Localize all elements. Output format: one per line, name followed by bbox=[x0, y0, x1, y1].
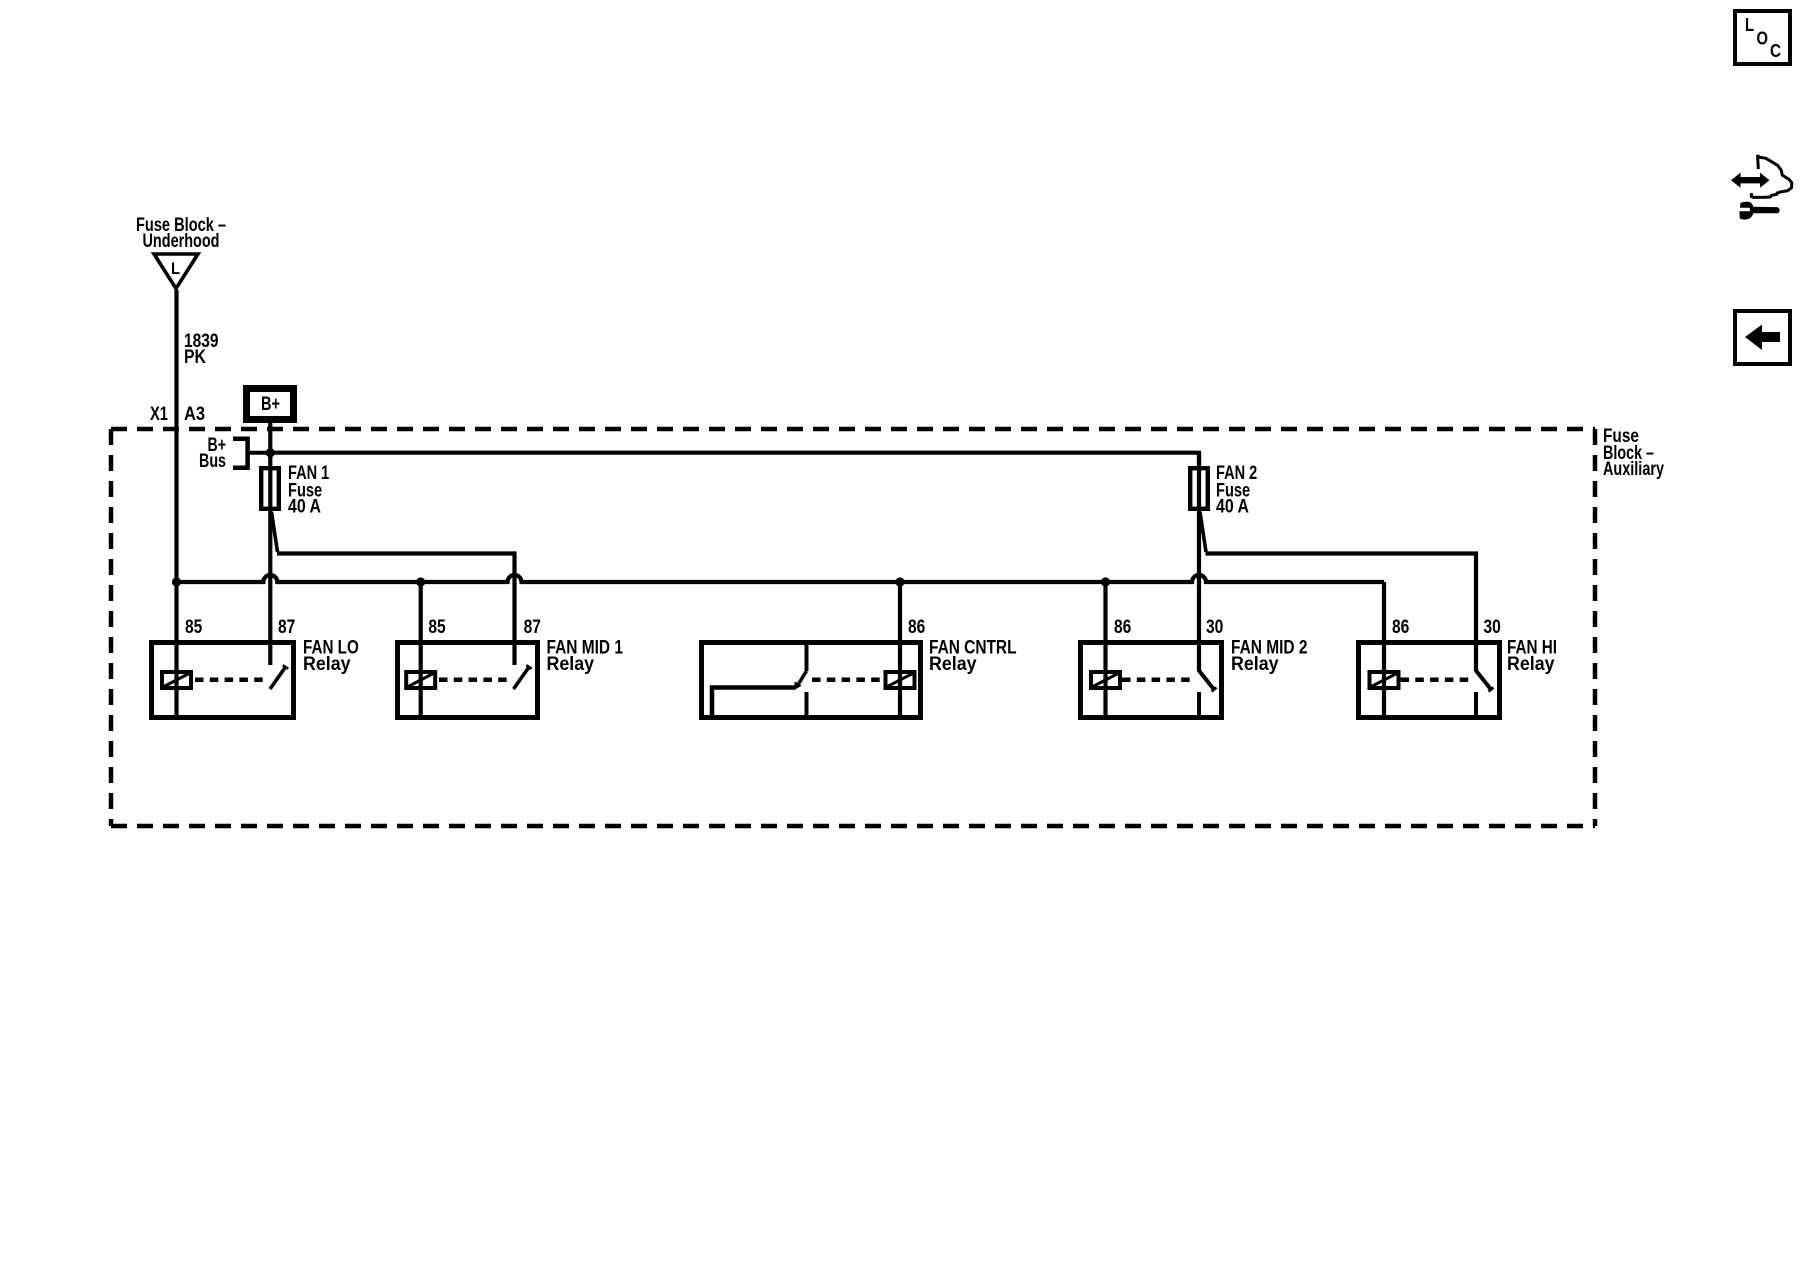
svg-text:L: L bbox=[171, 259, 180, 278]
junction coil bus at FAN CNTRL pin 86 bbox=[895, 577, 904, 586]
fuse FAN 1 40 A bbox=[261, 468, 279, 509]
wire FAN MID 2 pin 86 coil bbox=[1103, 582, 1107, 717]
relay FAN MID 1 box bbox=[398, 643, 538, 718]
wire FAN 1 fuse output diagonal branch bbox=[272, 512, 278, 552]
relay FAN CNTRL coil-switch dashed link bbox=[812, 678, 883, 683]
wire FAN HI pin 86 coil bbox=[1382, 582, 1386, 717]
relay FAN MID 2 coil bbox=[1091, 672, 1120, 688]
relay FAN LO switch blade bbox=[270, 665, 288, 689]
svg-text:PK: PK bbox=[184, 347, 206, 368]
label wire 1839 PK bbox=[184, 331, 219, 368]
fuse FAN 2 40 A bbox=[1190, 468, 1208, 509]
relay FAN LO coil bbox=[162, 672, 191, 688]
relay FAN LO coil-switch dashed link bbox=[195, 678, 266, 683]
icon adjust double arrow bbox=[1731, 173, 1770, 188]
relay FAN MID 2 coil-switch dashed link bbox=[1122, 678, 1195, 683]
svg-text:30: 30 bbox=[1484, 617, 1501, 638]
wire main relay coil bus with hops bbox=[177, 575, 1385, 582]
relay FAN HI coil bbox=[1370, 672, 1399, 688]
icon adjust hand outline bbox=[1751, 156, 1792, 197]
wire FAN 1 fuse output to FAN MID 1 pin 87 bbox=[277, 554, 515, 666]
B+ terminal box bbox=[247, 389, 294, 420]
wire FAN 2 fuse output to FAN HI pin 30 bbox=[1206, 554, 1477, 672]
relay FAN CNTRL switch blade with arrowhead bbox=[794, 671, 807, 690]
label B+ Bus bbox=[199, 435, 226, 472]
svg-text:87: 87 bbox=[524, 617, 541, 638]
wire B+ feed through FAN 1 fuse down to FAN LO pin 87 switch bbox=[268, 423, 272, 665]
junction B+ bus at FAN 1 fuse feed bbox=[266, 448, 275, 457]
relay FAN HI box bbox=[1359, 643, 1500, 718]
relay FAN CNTRL box bbox=[702, 643, 921, 718]
relay FAN MID 1 coil bbox=[406, 672, 435, 688]
label FAN MID 1 Relay bbox=[547, 638, 624, 676]
junction coil bus at 1839 PK wire bbox=[172, 577, 181, 586]
relay FAN MID 2 box bbox=[1081, 643, 1222, 718]
wire B+ bus horizontal to FAN 2 fuse bbox=[270, 453, 1199, 466]
relay FAN MID 2 switch lower stub bbox=[1197, 692, 1201, 717]
label FAN CNTRL Relay bbox=[929, 638, 1017, 676]
svg-text:Relay: Relay bbox=[303, 654, 351, 675]
relay FAN MID 1 coil-switch dashed link bbox=[439, 678, 510, 683]
label Fuse Block - Auxiliary bbox=[1603, 426, 1664, 480]
relay FAN MID 2 switch blade bbox=[1199, 670, 1217, 692]
svg-text:B+: B+ bbox=[261, 394, 280, 415]
wire bracket to B+ bus junction bbox=[248, 451, 270, 455]
svg-text:X1: X1 bbox=[150, 404, 168, 425]
B+ bus bracket bbox=[233, 439, 248, 468]
junction coil bus at FAN MID 2 pin 86 bbox=[1101, 577, 1110, 586]
label FAN LO Relay bbox=[303, 638, 359, 676]
svg-text:C: C bbox=[1770, 41, 1781, 61]
svg-text:Relay: Relay bbox=[1507, 654, 1555, 675]
relay FAN CNTRL internal contact wire to box bottom bbox=[712, 688, 795, 716]
relay FAN LO box bbox=[152, 643, 294, 718]
wire FAN MID 1 pin 85 coil bbox=[419, 582, 423, 717]
svg-text:30: 30 bbox=[1206, 617, 1223, 638]
svg-text:L: L bbox=[1745, 15, 1754, 35]
svg-text:86: 86 bbox=[908, 617, 925, 638]
svg-text:Auxiliary: Auxiliary bbox=[1603, 459, 1664, 480]
dashed border Fuse Block - Auxiliary bbox=[111, 429, 1595, 826]
svg-text:40 A: 40 A bbox=[288, 497, 321, 518]
connector triangle L (fuse block underhood) bbox=[154, 254, 198, 289]
svg-text:87: 87 bbox=[278, 617, 295, 638]
svg-text:O: O bbox=[1757, 29, 1769, 49]
svg-text:A3: A3 bbox=[184, 404, 205, 425]
label Fuse Block - Underhood bbox=[136, 215, 226, 252]
label FAN 1 Fuse 40 A bbox=[288, 463, 330, 518]
icon back arrow box bbox=[1735, 311, 1790, 364]
wire FAN 2 fuse output diagonal branch bbox=[1200, 512, 1206, 552]
wire FAN 2 feed through fuse down to FAN MID 2 pin 30 switch bbox=[1197, 453, 1201, 671]
junction coil bus at FAN MID 1 pin 85 bbox=[416, 577, 425, 586]
relay FAN HI coil-switch dashed link bbox=[1401, 678, 1473, 683]
wire FAN CNTRL pin 86 coil bbox=[898, 582, 902, 717]
label FAN HI Relay bbox=[1507, 638, 1557, 676]
relay FAN CNTRL coil bbox=[886, 672, 915, 688]
svg-text:Relay: Relay bbox=[547, 654, 595, 675]
relay FAN HI switch lower stub bbox=[1474, 692, 1478, 717]
svg-text:86: 86 bbox=[1114, 617, 1131, 638]
relay FAN HI switch blade bbox=[1476, 670, 1494, 692]
relay FAN CNTRL switch common from box top bbox=[805, 644, 809, 671]
svg-text:Underhood: Underhood bbox=[143, 231, 220, 252]
icon LOC box bbox=[1735, 11, 1790, 64]
svg-text:85: 85 bbox=[428, 617, 446, 638]
svg-text:Bus: Bus bbox=[199, 451, 226, 472]
label FAN 2 Fuse 40 A bbox=[1216, 463, 1257, 518]
svg-text:Relay: Relay bbox=[929, 654, 977, 675]
label FAN MID 2 Relay bbox=[1231, 638, 1308, 676]
icon adjust wrench bbox=[1739, 202, 1779, 220]
relay FAN CNTRL switch lower stub bbox=[805, 692, 809, 717]
svg-text:85: 85 bbox=[185, 617, 203, 638]
svg-text:86: 86 bbox=[1392, 617, 1409, 638]
svg-text:Relay: Relay bbox=[1231, 654, 1279, 675]
relay FAN MID 1 switch blade bbox=[514, 665, 532, 689]
svg-text:40 A: 40 A bbox=[1216, 497, 1249, 518]
wire 1839 PK from fuse block underhood to FAN LO relay pin 85 coil bbox=[174, 290, 178, 717]
